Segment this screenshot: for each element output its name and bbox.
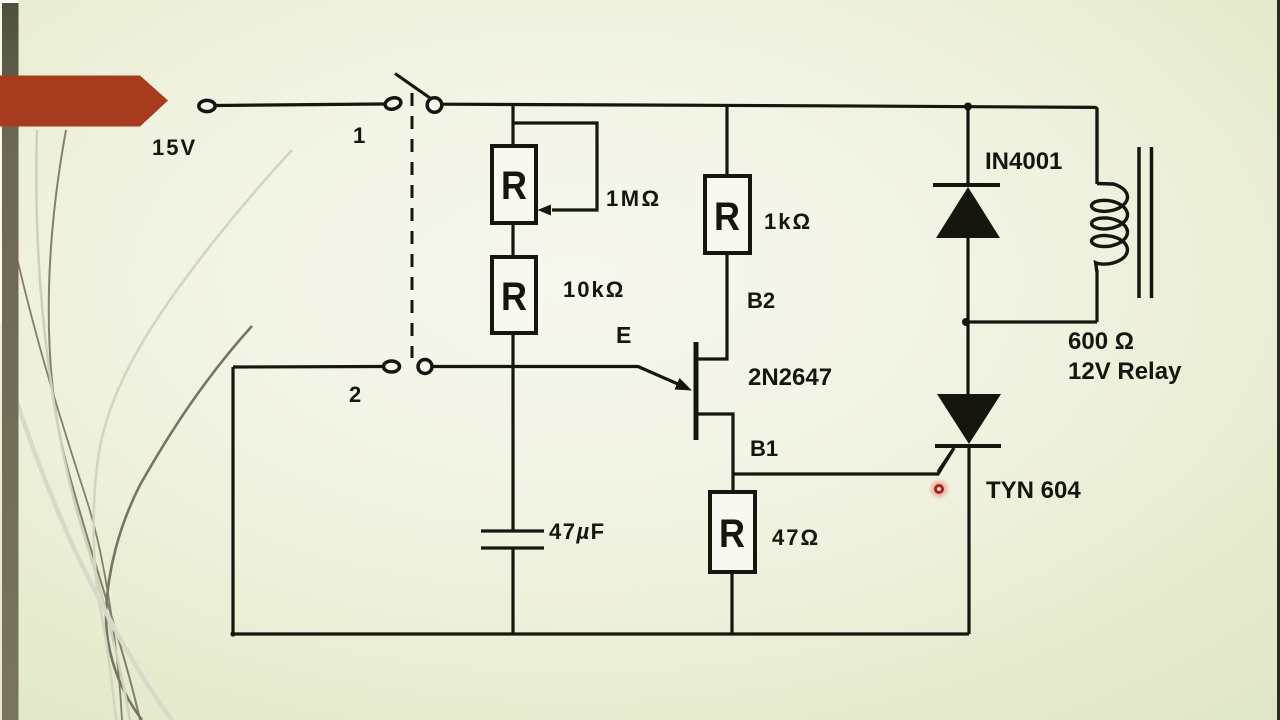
junction node mid xyxy=(962,318,970,326)
relay coil loops xyxy=(1092,184,1128,273)
white edge left of sidebar xyxy=(0,3,2,323)
white corner above sidebar xyxy=(0,0,18,3)
resistor R1 1M body xyxy=(492,146,536,223)
wire diode to SCR xyxy=(966,238,969,394)
red arrow banner xyxy=(0,76,168,127)
decorative swirl light 3 xyxy=(16,400,172,720)
wire junction to relay xyxy=(966,320,1097,323)
gate wire to SCR xyxy=(733,448,954,474)
capacitor C1 top plate xyxy=(481,529,544,532)
right border edge xyxy=(1277,0,1280,720)
wire top to R3 xyxy=(725,105,728,176)
decorative swirl dark 2 xyxy=(17,258,122,720)
junction node top xyxy=(964,103,972,111)
svg-text:1kΩ: 1kΩ xyxy=(764,209,812,234)
svg-text:47Ω: 47Ω xyxy=(772,525,820,550)
svg-text:2N2647: 2N2647 xyxy=(748,364,832,391)
diode D1 cathode bar xyxy=(933,183,1000,187)
decorative swirl light 1 xyxy=(36,130,130,720)
left vertical wire xyxy=(231,367,234,634)
svg-text:2: 2 xyxy=(349,382,361,407)
switch S1 right contact xyxy=(427,98,442,113)
decorative swirl light 2 xyxy=(94,150,292,720)
SCR gate diagonal xyxy=(938,448,954,472)
wire R4 to bottom xyxy=(730,572,733,634)
svg-text:B2: B2 xyxy=(747,288,775,313)
decorative swirl dark 3 xyxy=(106,326,252,720)
svg-text:12V Relay: 12V Relay xyxy=(1068,358,1182,385)
svg-text:15V: 15V xyxy=(152,135,197,160)
node bottom left corner xyxy=(230,631,235,636)
SCR T1 triangle xyxy=(937,394,1001,444)
svg-text:R: R xyxy=(719,512,745,556)
resistor R2 10k body xyxy=(492,257,536,333)
relay coil lead top xyxy=(1095,108,1098,184)
left loop wire horizontal xyxy=(233,365,384,369)
relay coil lead bottom xyxy=(1095,270,1098,322)
emitter arrowhead xyxy=(675,378,693,391)
svg-text:600 Ω: 600 Ω xyxy=(1068,328,1134,355)
relay core bar 2 xyxy=(1150,147,1154,298)
wire R2 to capacitor xyxy=(511,333,514,531)
svg-text:47µF: 47µF xyxy=(549,519,606,544)
svg-text:B1: B1 xyxy=(750,436,778,461)
svg-text:TYN 604: TYN 604 xyxy=(986,477,1081,504)
svg-text:10kΩ: 10kΩ xyxy=(563,277,625,302)
bottom wire xyxy=(233,632,969,635)
svg-text:E: E xyxy=(616,322,631,348)
top wire xyxy=(442,104,1097,183)
svg-text:R: R xyxy=(501,275,527,319)
capacitor C1 bottom plate xyxy=(481,546,544,549)
base B1 wire xyxy=(698,414,733,492)
UJT Q1 bar xyxy=(694,342,699,440)
diode branch wire xyxy=(966,107,969,186)
SCR T1 cathode bar xyxy=(935,444,1001,448)
emitter wire xyxy=(432,367,687,389)
wire R1 to R2 xyxy=(511,223,514,257)
input terminal xyxy=(199,100,215,111)
resistor R3 1k body xyxy=(705,176,750,253)
node at R1 branch xyxy=(511,105,514,146)
svg-text:1MΩ: 1MΩ xyxy=(606,186,662,211)
svg-text:IN4001: IN4001 xyxy=(985,148,1062,175)
decorative swirl dark 1 xyxy=(49,130,140,720)
svg-text:R: R xyxy=(501,164,527,208)
SCR cathode wire xyxy=(967,446,970,634)
switch S1 left contact xyxy=(384,96,402,111)
relay core bar 1 xyxy=(1137,147,1141,298)
rheostat arrowhead xyxy=(538,205,552,216)
switch S2 left contact xyxy=(384,361,400,372)
rheostat loop wire xyxy=(513,123,597,210)
left sidebar xyxy=(2,3,19,720)
base B2 wire xyxy=(698,253,727,359)
switch S1 blade xyxy=(395,74,430,99)
switch S2 right contact xyxy=(418,360,432,374)
diode D1 triangle xyxy=(936,187,1000,238)
red indicator glow xyxy=(928,478,950,500)
dashed linkage line xyxy=(411,93,414,358)
wire capacitor to bottom xyxy=(511,548,514,634)
resistor R4 47 body xyxy=(710,492,755,572)
wire terminal to switch 1 xyxy=(215,104,385,106)
svg-text:R: R xyxy=(714,195,740,239)
svg-text:1: 1 xyxy=(353,123,365,148)
